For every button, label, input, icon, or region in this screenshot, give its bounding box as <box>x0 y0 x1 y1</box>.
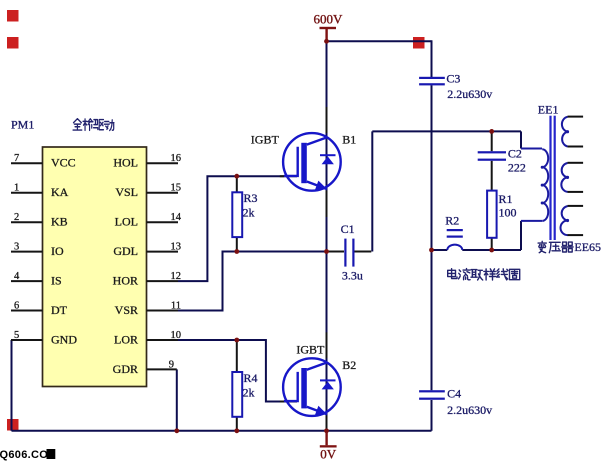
resistor R1 <box>487 191 497 238</box>
wire bottom rail <box>12 430 432 432</box>
svg-text:VCC: VCC <box>51 156 76 170</box>
capacitor C1 <box>344 239 354 267</box>
svg-text:12: 12 <box>171 271 182 282</box>
pin 11 <box>147 310 179 312</box>
svg-text:HOR: HOR <box>113 273 138 287</box>
pin 10 <box>147 339 179 341</box>
handle mark top-left 2 <box>7 37 19 49</box>
svg-text:100: 100 <box>499 206 517 220</box>
svg-text:14: 14 <box>171 212 182 223</box>
wire HOR to gate B1 <box>178 176 284 281</box>
pin 16 <box>147 162 179 164</box>
junction C2R1 top node <box>489 129 494 134</box>
wire right vertical lower (C4 to rail) <box>431 400 433 431</box>
junction GDR on rail <box>174 428 179 433</box>
svg-text:16: 16 <box>171 153 182 164</box>
pin 9 <box>147 368 177 370</box>
wire top rail <box>327 40 432 42</box>
pin 12 <box>147 280 179 282</box>
junction 600V rail <box>324 39 329 44</box>
wire transformer primary top connector <box>520 131 522 148</box>
wire LOR to gate B2 <box>178 340 284 402</box>
svg-text:2: 2 <box>14 212 19 223</box>
svg-text:IGBT: IGBT <box>251 132 280 146</box>
svg-text:KA: KA <box>51 185 69 199</box>
junction 0V on rail <box>324 428 329 433</box>
junction R4 top / LOR <box>234 338 239 343</box>
pin B2 gate (black) <box>280 401 297 403</box>
svg-text:C2: C2 <box>508 147 522 161</box>
wire transformer primary bottom connector <box>520 221 522 250</box>
wire resonant top (to transformer) <box>372 130 521 132</box>
junction R4 bottom on rail <box>234 428 239 433</box>
pin C2 top lead (black) <box>491 131 493 151</box>
svg-text:7: 7 <box>14 153 19 164</box>
power bar 600V <box>320 27 337 29</box>
svg-text:2.2u630v: 2.2u630v <box>447 403 492 417</box>
svg-text:2k: 2k <box>243 385 255 399</box>
svg-text:2.2u630v: 2.2u630v <box>447 87 492 101</box>
pin R1 bottom lead (black) <box>491 238 493 250</box>
transformer primary cusp dots <box>541 166 544 205</box>
wire right vertical upper (to C3) <box>431 40 433 77</box>
svg-text:IS: IS <box>51 273 62 287</box>
IC body PM1 <box>43 147 147 387</box>
svg-text:Q606.CO: Q606.CO <box>0 449 48 461</box>
svg-text:VSL: VSL <box>115 185 138 199</box>
pin B2 collector (black) <box>326 332 328 358</box>
svg-text:2k: 2k <box>243 205 255 219</box>
sampling coil R2 bump <box>447 245 462 250</box>
svg-text:1: 1 <box>14 183 19 194</box>
IC title text quan-qiao-qu-dong (full bridge driver) <box>73 119 114 131</box>
transformer secondary coil 3 <box>560 206 583 235</box>
svg-text:B2: B2 <box>342 358 356 372</box>
svg-text:LOR: LOR <box>114 332 138 346</box>
wire main vertical (B1/B2 branch) <box>326 41 328 431</box>
svg-text:B1: B1 <box>342 132 356 146</box>
pin 2 <box>11 221 43 223</box>
capacitor C3 <box>419 77 445 86</box>
capacitor C4 <box>419 390 445 400</box>
svg-text:DT: DT <box>51 303 68 317</box>
svg-text:6: 6 <box>14 300 19 311</box>
svg-text:600V: 600V <box>314 12 344 27</box>
junction R1 bottom node <box>489 248 494 253</box>
ground stub 0V <box>325 431 327 446</box>
junction R3 bottom / VSR <box>234 249 239 254</box>
pin 1 <box>11 192 43 194</box>
resistor R3 <box>232 192 242 237</box>
svg-text:EE65: EE65 <box>574 240 601 254</box>
IGBT B2 <box>283 358 341 416</box>
wire return rail (R2 row) left <box>432 249 448 251</box>
svg-text:GDR: GDR <box>113 362 138 376</box>
pin C1 left lead (black) <box>328 251 344 253</box>
svg-text:R4: R4 <box>244 371 258 385</box>
pin 7 <box>11 162 43 164</box>
transformer primary winding <box>521 149 548 221</box>
junction gate node B1 (R3 top) <box>234 174 239 179</box>
wire return rail (R2 row) right <box>462 249 521 251</box>
svg-text:10: 10 <box>171 330 182 341</box>
pin B1 emitter (black) <box>326 191 328 218</box>
pin B1 gate (black) <box>280 175 297 177</box>
handle mark top-left 1 <box>7 10 19 22</box>
wire C1 riser <box>371 131 373 251</box>
wire GND left vertical <box>11 340 13 431</box>
handle mark top-right <box>413 37 425 49</box>
pin 14 <box>147 221 179 223</box>
pin 4 <box>11 280 43 282</box>
pin 5 <box>11 339 43 341</box>
pin B2 emitter (black) <box>326 416 328 431</box>
svg-text:3: 3 <box>14 242 19 253</box>
svg-text:15: 15 <box>171 183 182 194</box>
svg-text:11: 11 <box>171 300 181 311</box>
svg-text:C1: C1 <box>341 222 355 236</box>
svg-text:4: 4 <box>14 271 20 282</box>
sampling coil R2 bars <box>447 229 463 238</box>
svg-text:LOL: LOL <box>115 215 138 229</box>
svg-text:PM1: PM1 <box>11 118 34 132</box>
svg-text:5: 5 <box>14 330 19 341</box>
svg-text:9: 9 <box>169 359 174 370</box>
pin B1 collector (black) <box>326 107 328 133</box>
pin R4 bottom lead (black) <box>236 417 238 431</box>
pin 13 <box>147 251 179 253</box>
svg-text:3.3u: 3.3u <box>342 268 363 282</box>
capacitor C2 <box>478 151 506 161</box>
resistor R4 <box>232 372 242 417</box>
svg-text:222: 222 <box>508 161 526 175</box>
svg-text:0V: 0V <box>320 446 337 461</box>
svg-text:R1: R1 <box>499 192 513 206</box>
pin R3 bottom lead (black) <box>236 237 238 251</box>
svg-text:13: 13 <box>171 242 182 253</box>
wire right vertical middle (C3 to C4) <box>431 85 433 390</box>
transformer EE1 core <box>549 116 555 240</box>
svg-text:C4: C4 <box>447 387 461 401</box>
svg-text:KB: KB <box>51 215 68 229</box>
transformer secondary coil 1 <box>562 117 583 147</box>
IGBT B1 <box>283 133 341 191</box>
ground bar 0V <box>320 445 337 447</box>
transformer note bian-ya-qi (transformer) EE65 <box>538 241 573 252</box>
handle mark bottom-left <box>7 419 19 431</box>
svg-text:IGBT: IGBT <box>296 343 325 357</box>
pin 15 <box>147 192 179 194</box>
pin R3 top lead (black) <box>236 176 238 192</box>
junction C3C4 midpoint / R2 <box>429 248 434 253</box>
svg-text:IO: IO <box>51 244 64 258</box>
svg-text:GDL: GDL <box>113 244 138 258</box>
pin C1 right lead (black) <box>355 251 372 253</box>
svg-text:EE1: EE1 <box>538 102 559 116</box>
svg-text:R3: R3 <box>244 191 258 205</box>
wire VSR to midpoint <box>178 252 327 311</box>
pin C2-R1 leads (black) <box>491 161 493 191</box>
pin 3 <box>11 251 43 253</box>
pin R4 top lead (black) <box>236 340 238 372</box>
svg-text:VSR: VSR <box>115 303 138 317</box>
note text dian-liu-qu-yang-xian-quan (current sampling coil) <box>448 269 520 280</box>
svg-text:C3: C3 <box>446 72 460 86</box>
svg-text:R2: R2 <box>445 213 459 227</box>
junction half-bridge midpoint <box>324 249 329 254</box>
power stub 600V <box>325 28 327 42</box>
svg-text:GND: GND <box>51 332 77 346</box>
wire GDR vertical <box>176 369 178 430</box>
transformer secondary coil 2 <box>561 163 583 192</box>
pin 6 <box>11 310 43 312</box>
svg-text:HOL: HOL <box>113 156 138 170</box>
